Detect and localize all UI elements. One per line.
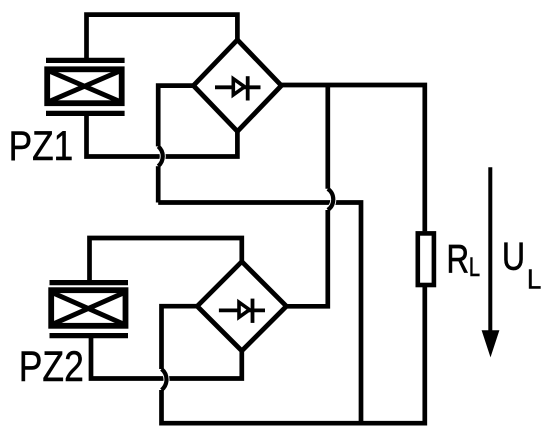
- svg-text:U: U: [502, 235, 525, 278]
- svg-text:L: L: [527, 263, 541, 294]
- svg-text:L: L: [469, 252, 480, 282]
- svg-text:PZ1: PZ1: [9, 123, 74, 169]
- svg-text:PZ2: PZ2: [19, 343, 84, 391]
- svg-text:R: R: [447, 238, 470, 282]
